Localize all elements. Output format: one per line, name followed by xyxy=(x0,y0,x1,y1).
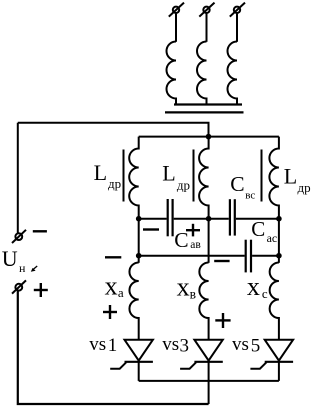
label VS3 xyxy=(162,334,189,356)
svg-text:vs: vs xyxy=(89,334,106,355)
terminal input phase B xyxy=(199,3,214,17)
svg-text:др: др xyxy=(177,178,190,193)
capacitor Cbc xyxy=(230,199,235,235)
transformer winding phase C xyxy=(228,42,238,104)
wire branch A middle xyxy=(138,219,140,263)
inductor Ldr1 core bar xyxy=(123,150,125,202)
label xb xyxy=(177,272,196,301)
node C1 xyxy=(276,216,282,222)
label VS5 xyxy=(232,334,260,356)
svg-text:vs: vs xyxy=(162,334,179,355)
wire phase B to winding xyxy=(206,14,208,42)
terminal output plus xyxy=(12,280,26,293)
transformer winding phase B xyxy=(197,42,206,104)
node A1 xyxy=(136,216,142,222)
wire VS5 cathode xyxy=(278,362,280,381)
node A2 xyxy=(136,253,142,259)
svg-text:L: L xyxy=(94,160,107,185)
label Ldr3 xyxy=(284,164,311,195)
wire Cac row right xyxy=(252,255,279,257)
svg-text:вс: вс xyxy=(245,190,255,202)
node C2 xyxy=(276,253,282,259)
label xa xyxy=(105,272,124,301)
svg-text:vs: vs xyxy=(232,334,249,355)
inductor Ldr1 winding xyxy=(129,137,139,219)
label plus xb xyxy=(215,313,230,328)
wire left rail upper xyxy=(17,123,19,234)
terminal input phase C xyxy=(230,3,245,17)
wire Cbc row left xyxy=(209,218,229,220)
label xc xyxy=(247,272,268,301)
transformer core line xyxy=(165,111,244,113)
svg-text:C: C xyxy=(174,228,188,252)
svg-text:3: 3 xyxy=(180,335,190,356)
wire VS1 cathode xyxy=(138,362,140,381)
capacitor Cac xyxy=(246,240,251,273)
wire branch B middle xyxy=(208,219,210,263)
terminal input phase A xyxy=(169,3,184,17)
inductor Ldr2 core bar xyxy=(193,150,195,202)
svg-text:L: L xyxy=(284,164,297,189)
svg-text:ав: ав xyxy=(190,239,201,251)
svg-text:др: др xyxy=(298,180,311,195)
wire branch top bus xyxy=(139,136,279,138)
svg-text:C: C xyxy=(251,217,265,241)
thyristor VS3 xyxy=(180,340,223,369)
label Cab xyxy=(174,228,201,252)
svg-text:1: 1 xyxy=(108,335,118,356)
capacitor Cab xyxy=(168,199,173,236)
wire phase A to winding xyxy=(175,14,177,42)
transformer winding common bus xyxy=(174,103,242,105)
thyristor VS1 xyxy=(110,340,153,369)
svg-text:x: x xyxy=(105,272,118,301)
wire source feed top xyxy=(18,123,209,137)
svg-text:др: др xyxy=(108,176,121,191)
reactor xa winding xyxy=(129,263,138,340)
wire Cab row left xyxy=(139,218,167,220)
label plus source xyxy=(34,283,48,297)
svg-text:ас: ас xyxy=(267,231,278,245)
svg-text:5: 5 xyxy=(251,335,260,356)
wire Cab row right xyxy=(174,218,209,220)
reactor xb winding xyxy=(199,263,208,340)
node B1 xyxy=(206,216,212,222)
svg-text:L: L xyxy=(162,160,175,185)
svg-text:а: а xyxy=(118,285,124,300)
terminal output minus xyxy=(12,230,26,243)
wire left rail lower and bottom bus xyxy=(18,291,209,404)
label minus source xyxy=(33,230,47,232)
svg-text:C: C xyxy=(230,172,244,196)
inductor Ldr3 core bar xyxy=(261,150,263,202)
label Ldr1 xyxy=(94,160,122,191)
wire Cac row left xyxy=(139,255,245,257)
transformer winding phase A xyxy=(167,42,177,104)
inductor Ldr3 winding xyxy=(269,137,279,219)
svg-text:н: н xyxy=(19,261,26,275)
thyristor VS5 xyxy=(250,340,293,369)
wire cathode bus xyxy=(139,380,279,382)
label Ldr2 xyxy=(162,160,190,192)
reactor xc winding xyxy=(270,263,279,340)
label VS1 xyxy=(89,334,117,356)
wire phase C to winding xyxy=(236,14,238,42)
node junction feed/bus xyxy=(206,134,212,140)
wire branch C middle xyxy=(278,219,280,263)
svg-text:x: x xyxy=(177,272,190,301)
inductor Ldr2 winding xyxy=(199,137,209,219)
svg-text:в: в xyxy=(190,287,196,302)
wire VS3 cathode to bottom bus xyxy=(208,362,210,404)
svg-text:U: U xyxy=(2,246,18,271)
svg-text:x: x xyxy=(247,272,260,301)
label minus Cab xyxy=(143,228,159,230)
label minus xa xyxy=(105,256,121,258)
label minus xb xyxy=(214,260,229,262)
svg-text:с: с xyxy=(262,286,268,301)
label Cac xyxy=(251,217,277,245)
label Cbc xyxy=(230,172,255,202)
label plus xa xyxy=(103,305,117,319)
label plus Cab xyxy=(186,224,200,237)
wire Cbc row right xyxy=(236,218,279,220)
label Un xyxy=(2,246,37,275)
